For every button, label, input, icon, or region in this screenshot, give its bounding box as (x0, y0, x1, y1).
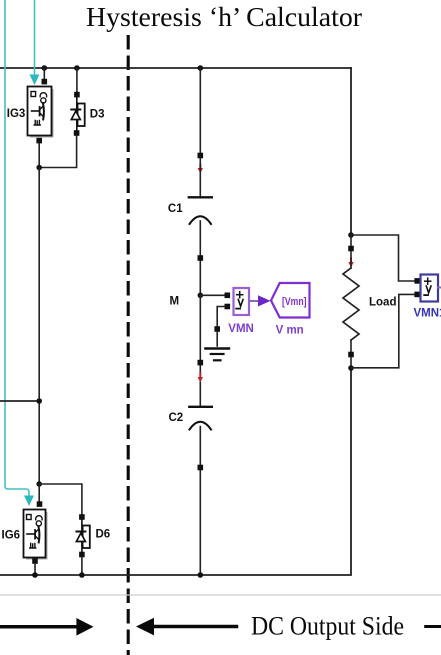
diode D6 (76, 514, 110, 575)
capacitor C2 (189, 406, 212, 408)
node: rail junction capacitor leg (198, 572, 204, 578)
wire: C2 to rail (199, 427, 201, 576)
bottom annotation: right dash (426, 625, 441, 628)
port: D3 bottom (74, 130, 80, 136)
voltage measurement VMN1 (414, 275, 441, 320)
svg-text:V mn: V mn (276, 325, 304, 337)
node M (198, 293, 204, 299)
node: rail junction under IG6 (32, 572, 38, 578)
red polarity marker C1 (198, 164, 203, 174)
port: C1 bottom (198, 255, 204, 261)
port: VMN plus (225, 293, 231, 299)
D3 icon (71, 97, 84, 130)
wire: bus to D3 (76, 68, 78, 93)
svg-text:C1: C1 (168, 203, 183, 215)
wire: bottom DC rail (0, 367, 351, 575)
capacitor leg (168, 68, 212, 295)
port: IG6 top (37, 501, 43, 507)
gray horizontal separator (0, 594, 441, 596)
D6 icon (76, 520, 89, 552)
svg-text:VMN1: VMN1 (414, 308, 441, 320)
port: D6 top (79, 514, 85, 520)
wire: ground stem (216, 332, 218, 346)
svg-text:IG6: IG6 (2, 530, 21, 542)
port: D6 bottom (79, 552, 85, 558)
wire: right vertical (top) (350, 68, 352, 236)
svg-text:[Vmn]: [Vmn] (282, 296, 307, 308)
wire: left mid vertical (38, 168, 40, 485)
wire: resistor to port (350, 340, 352, 353)
port: D3 top (74, 92, 80, 98)
goto tag [Vmn] (271, 283, 310, 337)
wire: to bottom junction (350, 357, 352, 368)
wire: gate signal to IG3 (cyan) (34, 0, 36, 75)
wire: junction to D6 (39, 484, 82, 515)
IGBT IG3 (7, 68, 54, 168)
port: load bottom (348, 352, 354, 358)
wire: IG3 emitter down (38, 143, 40, 167)
svg-text:D6: D6 (96, 529, 111, 541)
wire: D3 to bottom junction (39, 136, 76, 168)
port: VMN1 minus (414, 292, 420, 298)
wire: VMN output stub (249, 300, 258, 302)
wire: to resistor (350, 251, 352, 268)
port: IG3 bottom (36, 138, 42, 144)
wire: left stub to edge (0, 400, 39, 402)
svg-text:Hysteresis ‘h’ Calculator: Hysteresis ‘h’ Calculator (86, 2, 362, 32)
resistor Load (343, 268, 359, 340)
svg-text:IG3: IG3 (7, 108, 26, 120)
svg-text:DC Output Side: DC Output Side (251, 612, 404, 641)
port: IG6 bottom (32, 558, 38, 564)
wire: gate signal to IG6 (cyan) (5, 0, 29, 496)
wire: VMN minus to ground (217, 307, 225, 328)
voltage measurement VMN (228, 288, 254, 335)
svg-text:VMN: VMN (228, 323, 254, 335)
node: IG6 top junction (36, 481, 42, 487)
node: top junction capacitor leg (198, 65, 204, 71)
IG6 inner icon (27, 515, 43, 549)
wire: to C1 plate (199, 158, 201, 196)
port: ground (214, 326, 220, 332)
wire: bus to IG3 collector (43, 68, 45, 80)
capacitor C1 (189, 196, 212, 198)
svg-text:Load: Load (369, 297, 396, 309)
diode D3 (39, 68, 104, 168)
node: left stub junction (36, 398, 42, 404)
svg-text:M: M (170, 296, 180, 308)
wire: bus down to C1 (199, 68, 201, 154)
arrow into goto tag (258, 295, 271, 306)
load branch (343, 232, 396, 371)
red polarity marker load (348, 258, 353, 268)
block body IG6 (26, 512, 48, 560)
block body IG3 (30, 89, 54, 138)
IGBT IG6 (2, 484, 48, 575)
wires to VMN1 (351, 235, 415, 281)
node: top junction above IG3 (42, 65, 48, 71)
bottom annotation: left arrow (0, 625, 77, 629)
node: load bottom junction (348, 365, 354, 371)
node: IG3/D3 emitter junction (36, 165, 42, 171)
port: VMN1 plus (414, 278, 420, 284)
port: IG3 top (42, 79, 48, 85)
wire: junction to load (350, 235, 352, 248)
port: load top (348, 246, 354, 252)
port: VMN minus (225, 304, 231, 310)
ground symbol (205, 349, 229, 361)
wire: M down to C2 (199, 295, 201, 405)
red polarity marker C2 (198, 373, 203, 383)
wire: junction to IG6 collector (38, 484, 40, 503)
wire: VMN1 output stub (438, 287, 441, 289)
wire: top DC bus (0, 67, 351, 69)
bottom annotation: right arrow (136, 618, 154, 636)
wire: D6 to rail (81, 557, 83, 575)
port: C2 top (198, 360, 204, 366)
dashed separator line (127, 37, 130, 655)
wire: M to VMN plus (200, 294, 225, 296)
port: C1 top (198, 153, 204, 159)
wire: IG6 emitter to rail (34, 564, 36, 575)
svg-text:C2: C2 (169, 412, 184, 424)
node: load top junction (348, 232, 354, 238)
wire: C1 to M node (199, 221, 201, 295)
node: rail junction under D6 (79, 572, 85, 578)
node: top junction above D3 (74, 65, 80, 71)
port: C2 bottom (198, 465, 204, 471)
IG3 inner icon (31, 92, 47, 126)
svg-text:D3: D3 (90, 109, 105, 121)
